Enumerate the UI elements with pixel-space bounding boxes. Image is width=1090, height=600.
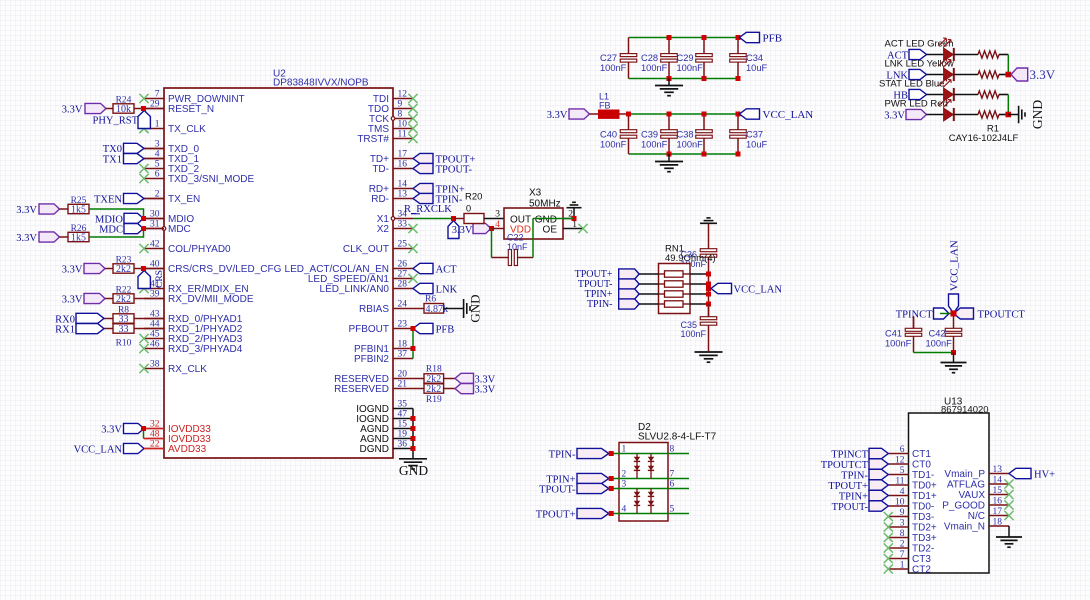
svg-text:3.3V: 3.3V	[884, 110, 905, 121]
svg-text:100nF: 100nF	[641, 139, 668, 149]
svg-text:DGND: DGND	[360, 444, 389, 455]
svg-text:10uF: 10uF	[746, 139, 768, 149]
svg-text:OE: OE	[543, 225, 558, 236]
svg-text:TD2-: TD2-	[912, 544, 934, 555]
svg-text:46: 46	[150, 340, 160, 350]
svg-text:R22: R22	[116, 285, 132, 295]
svg-text:MDC: MDC	[99, 225, 123, 236]
svg-text:23: 23	[398, 320, 408, 330]
svg-text:3: 3	[622, 480, 627, 490]
svg-text:6: 6	[900, 445, 905, 455]
svg-text:24: 24	[398, 300, 408, 310]
svg-text:5: 5	[670, 505, 675, 515]
svg-text:RBIAS: RBIAS	[359, 304, 389, 315]
svg-text:100nF: 100nF	[885, 338, 912, 348]
svg-text:18: 18	[398, 340, 408, 350]
svg-text:P_GOOD: P_GOOD	[942, 501, 985, 512]
svg-text:TPIN-: TPIN-	[841, 470, 868, 481]
svg-text:4: 4	[622, 505, 627, 515]
svg-text:10: 10	[398, 120, 408, 130]
svg-text:3.3V: 3.3V	[62, 264, 83, 275]
svg-text:0: 0	[466, 204, 471, 215]
svg-text:DP83848IVVX/NOPB: DP83848IVVX/NOPB	[273, 78, 369, 89]
svg-text:RX_CLK: RX_CLK	[168, 364, 207, 375]
svg-text:100nF: 100nF	[641, 63, 668, 73]
svg-text:MDC: MDC	[168, 224, 191, 235]
svg-text:4: 4	[495, 220, 500, 230]
svg-text:13: 13	[398, 190, 408, 200]
svg-text:Vmain_N: Vmain_N	[944, 522, 985, 533]
svg-text:R18: R18	[426, 365, 442, 375]
svg-text:25: 25	[398, 240, 408, 250]
svg-text:CRS/CRS_DV/LED_CFG: CRS/CRS_DV/LED_CFG	[168, 264, 282, 275]
svg-text:VCC_LAN: VCC_LAN	[763, 109, 814, 121]
svg-text:TXEN: TXEN	[94, 194, 122, 205]
svg-text:3: 3	[495, 210, 500, 220]
svg-text:LNK: LNK	[886, 70, 908, 81]
svg-text:7: 7	[155, 90, 160, 100]
svg-text:8: 8	[900, 529, 905, 539]
svg-text:4.87k: 4.87k	[426, 304, 449, 315]
svg-text:100nF: 100nF	[600, 63, 627, 73]
svg-text:PFB: PFB	[436, 324, 455, 335]
svg-text:2k2: 2k2	[116, 264, 131, 275]
svg-text:3.3V: 3.3V	[547, 110, 568, 121]
svg-text:2: 2	[622, 470, 627, 480]
svg-text:R8: R8	[118, 305, 129, 315]
svg-text:GND: GND	[468, 294, 483, 322]
svg-text:TPIN-: TPIN-	[587, 299, 613, 310]
svg-text:C39: C39	[641, 130, 658, 140]
svg-text:3.3V: 3.3V	[101, 425, 122, 436]
svg-text:TX_EN: TX_EN	[168, 194, 200, 205]
svg-text:10k: 10k	[116, 104, 131, 115]
svg-text:8: 8	[670, 445, 675, 455]
svg-text:19: 19	[398, 430, 408, 440]
svg-text:10: 10	[895, 498, 905, 508]
svg-text:GND: GND	[399, 463, 428, 478]
svg-text:ACT: ACT	[887, 50, 909, 61]
svg-text:26: 26	[398, 260, 408, 270]
svg-text:3: 3	[900, 519, 905, 529]
svg-text:TPOUT+: TPOUT+	[536, 510, 576, 521]
svg-text:47: 47	[398, 410, 408, 420]
svg-text:7: 7	[900, 550, 905, 560]
svg-text:7: 7	[670, 470, 675, 480]
svg-text:TD0-: TD0-	[912, 502, 934, 513]
svg-text:100nF: 100nF	[600, 139, 627, 149]
svg-text:R6: R6	[425, 294, 436, 304]
svg-text:1k5: 1k5	[71, 232, 86, 243]
svg-text:TX1: TX1	[103, 154, 122, 165]
svg-text:8: 8	[398, 110, 403, 120]
svg-text:100nF: 100nF	[677, 139, 704, 149]
svg-text:PFBOUT: PFBOUT	[348, 324, 389, 335]
svg-text:TRST#: TRST#	[357, 134, 389, 145]
svg-text:C29: C29	[677, 53, 694, 63]
svg-text:2k2: 2k2	[116, 294, 131, 305]
svg-text:10nF: 10nF	[507, 242, 528, 252]
svg-text:LED_LINK/AN0: LED_LINK/AN0	[320, 284, 390, 295]
svg-text:6: 6	[155, 170, 160, 180]
svg-text:C42: C42	[929, 329, 946, 339]
svg-text:27: 27	[398, 270, 408, 280]
svg-text:TD3+: TD3+	[912, 533, 937, 544]
svg-text:36: 36	[398, 440, 408, 450]
svg-text:16: 16	[398, 160, 408, 170]
svg-text:20: 20	[398, 370, 408, 380]
svg-text:14: 14	[398, 180, 408, 190]
svg-text:11: 11	[895, 477, 904, 487]
svg-text:17: 17	[398, 150, 408, 160]
svg-text:3.3V: 3.3V	[62, 104, 83, 115]
svg-text:R23: R23	[116, 255, 132, 265]
svg-text:1: 1	[622, 445, 627, 455]
svg-text:VCC_LAN: VCC_LAN	[949, 240, 961, 291]
svg-text:3.3V: 3.3V	[1030, 67, 1056, 82]
svg-text:R26: R26	[71, 224, 87, 234]
svg-text:TPIN-: TPIN-	[549, 450, 576, 461]
svg-text:9: 9	[398, 100, 403, 110]
svg-text:13: 13	[993, 465, 1003, 475]
svg-text:12: 12	[895, 456, 905, 466]
svg-text:3.3V: 3.3V	[62, 294, 83, 305]
svg-text:CT2: CT2	[912, 565, 931, 576]
svg-text:LNK: LNK	[436, 284, 458, 295]
svg-text:AVDD33: AVDD33	[168, 444, 207, 455]
svg-text:RXD_3/PHYAD4: RXD_3/PHYAD4	[168, 344, 243, 355]
svg-text:TD1+: TD1+	[912, 491, 937, 502]
svg-text:VAUX: VAUX	[959, 490, 986, 501]
svg-text:CAY16-102J4LF: CAY16-102J4LF	[949, 133, 1019, 144]
svg-text:RX1: RX1	[55, 325, 75, 336]
svg-text:ATFLAG: ATFLAG	[947, 480, 985, 491]
svg-text:28: 28	[398, 280, 408, 290]
svg-text:TPOUT-: TPOUT-	[436, 164, 473, 175]
svg-text:16: 16	[993, 497, 1003, 507]
svg-text:RX_DV/MII_MODE: RX_DV/MII_MODE	[168, 294, 254, 305]
svg-text:GND: GND	[1030, 100, 1045, 129]
svg-text:CT3: CT3	[912, 554, 931, 565]
svg-text:TD3-: TD3-	[912, 512, 934, 523]
svg-text:TPOUT-: TPOUT-	[539, 485, 576, 496]
svg-text:3.3V: 3.3V	[475, 384, 496, 395]
svg-text:FB: FB	[599, 101, 611, 111]
svg-text:C38: C38	[677, 130, 694, 140]
svg-text:R19: R19	[426, 395, 442, 405]
svg-text:C27: C27	[600, 53, 617, 63]
svg-text:C34: C34	[746, 53, 763, 63]
svg-text:R24: R24	[116, 95, 132, 105]
svg-text:CRS: CRS	[155, 270, 165, 288]
svg-text:C40: C40	[600, 130, 617, 140]
svg-text:COL/PHYAD0: COL/PHYAD0	[168, 244, 231, 255]
svg-text:15: 15	[398, 420, 408, 430]
svg-text:CLK_OUT: CLK_OUT	[343, 244, 389, 255]
svg-text:R20: R20	[465, 192, 482, 203]
svg-text:C41: C41	[885, 329, 902, 339]
svg-text:TPINCT: TPINCT	[896, 309, 933, 320]
svg-text:RESET_N: RESET_N	[168, 104, 214, 115]
svg-text:3.3V: 3.3V	[16, 233, 37, 244]
svg-text:35: 35	[398, 400, 408, 410]
svg-text:33: 33	[398, 220, 408, 230]
svg-text:VCC_LAN: VCC_LAN	[74, 445, 123, 456]
svg-text:14: 14	[993, 476, 1003, 486]
svg-text:TXD_3/SNI_MODE: TXD_3/SNI_MODE	[168, 174, 254, 185]
svg-text:OUT: OUT	[510, 214, 531, 225]
svg-text:C28: C28	[641, 53, 658, 63]
svg-text:HV+: HV+	[1034, 469, 1055, 480]
svg-text:PFB: PFB	[763, 33, 783, 45]
svg-text:1: 1	[900, 561, 905, 571]
svg-text:45: 45	[150, 330, 160, 340]
svg-text:17: 17	[993, 507, 1003, 517]
svg-text:15: 15	[993, 486, 1003, 496]
svg-text:Vmain_P: Vmain_P	[944, 469, 985, 480]
svg-text:HB: HB	[893, 90, 908, 101]
svg-text:TPIN+: TPIN+	[839, 491, 868, 502]
svg-text:PFBIN2: PFBIN2	[354, 354, 389, 365]
svg-text:2k2: 2k2	[426, 384, 441, 395]
svg-text:CT1: CT1	[912, 449, 931, 460]
svg-text:ACT: ACT	[436, 264, 458, 275]
svg-text:TPOUTCT: TPOUTCT	[978, 309, 1026, 320]
svg-text:CT0: CT0	[912, 460, 931, 471]
svg-text:R25: R25	[71, 196, 87, 206]
svg-text:TD0+: TD0+	[912, 481, 937, 492]
svg-text:PHY_RST: PHY_RST	[92, 116, 138, 127]
svg-text:6: 6	[670, 480, 675, 490]
svg-text:TD1-: TD1-	[912, 470, 934, 481]
svg-text:N/C: N/C	[968, 511, 985, 522]
svg-text:21: 21	[398, 380, 408, 390]
svg-text:TPOUTCT: TPOUTCT	[821, 460, 869, 471]
svg-text:GND: GND	[535, 214, 557, 225]
svg-text:33: 33	[119, 324, 129, 335]
svg-text:100nF: 100nF	[926, 338, 953, 348]
svg-text:TPOUT-: TPOUT-	[832, 502, 869, 513]
svg-text:VCC_LAN: VCC_LAN	[734, 284, 783, 295]
svg-text:100nF: 100nF	[677, 63, 704, 73]
svg-text:42: 42	[150, 240, 160, 250]
svg-text:12: 12	[398, 90, 408, 100]
svg-text:2: 2	[900, 540, 905, 550]
svg-text:1: 1	[155, 120, 160, 130]
svg-text:5: 5	[900, 466, 905, 476]
svg-text:100nF: 100nF	[681, 329, 707, 339]
svg-text:TD-: TD-	[372, 164, 389, 175]
svg-text:9: 9	[900, 508, 905, 518]
svg-text:X2: X2	[377, 224, 390, 235]
svg-text:RD-: RD-	[371, 194, 389, 205]
svg-text:C37: C37	[746, 130, 763, 140]
svg-text:TPOUT+: TPOUT+	[828, 481, 868, 492]
svg-text:TPINCT: TPINCT	[831, 449, 868, 460]
svg-text:TD2+: TD2+	[912, 523, 937, 534]
svg-text:R10: R10	[116, 339, 132, 349]
svg-text:37: 37	[398, 350, 408, 360]
svg-text:38: 38	[150, 360, 160, 370]
svg-text:X3: X3	[529, 188, 542, 199]
svg-text:5: 5	[155, 160, 160, 170]
svg-text:11: 11	[398, 130, 407, 140]
svg-text:4: 4	[900, 487, 905, 497]
svg-text:RESERVED: RESERVED	[334, 384, 389, 395]
svg-text:1k5: 1k5	[71, 204, 86, 215]
svg-text:3.3V: 3.3V	[16, 205, 37, 216]
svg-text:SLVU2.8-4-LF-T7: SLVU2.8-4-LF-T7	[638, 432, 717, 443]
svg-text:10uF: 10uF	[746, 63, 768, 73]
svg-text:18: 18	[993, 518, 1003, 528]
svg-text:TX_CLK: TX_CLK	[168, 124, 206, 135]
svg-text:3.3V: 3.3V	[452, 225, 473, 236]
svg-text:C22: C22	[507, 232, 524, 242]
